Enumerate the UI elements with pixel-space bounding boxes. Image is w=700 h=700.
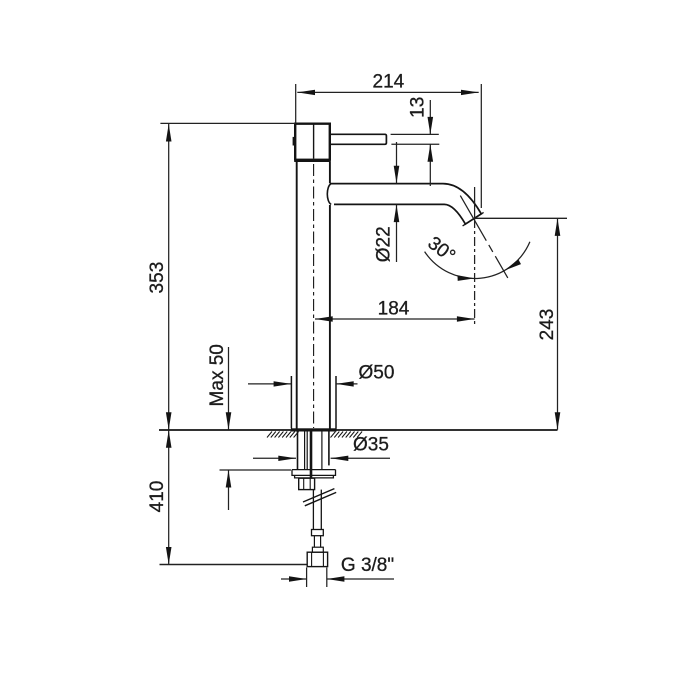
head cap joint line <box>313 124 315 159</box>
angle arc <box>425 242 530 279</box>
washer plate top <box>292 469 336 471</box>
washer lip <box>295 475 334 478</box>
svg-text:243: 243 <box>537 309 558 341</box>
svg-text:184: 184 <box>378 299 410 320</box>
faucet head (cartridge housing) <box>295 124 330 161</box>
hatching left of shank <box>267 432 299 438</box>
body column left edge <box>296 162 298 429</box>
horizontal extension from tip <box>475 217 567 219</box>
centerline of column (dash-dot) <box>313 164 315 428</box>
deck line <box>159 429 558 431</box>
svg-text:Ø50: Ø50 <box>359 363 395 384</box>
hatching right of shank <box>331 432 363 438</box>
spout tube outline <box>330 184 481 225</box>
pipe break slashes <box>303 489 334 502</box>
base shell Ø50 right <box>335 376 337 429</box>
vertical through tip <box>474 187 476 219</box>
head bottom thick band <box>294 159 331 162</box>
base bottom rim <box>291 428 337 431</box>
svg-text:Ø35: Ø35 <box>353 435 389 456</box>
washer body <box>292 470 336 476</box>
spout tip face line extensions <box>463 212 484 226</box>
G3/8 connector nut <box>307 552 327 566</box>
hose end sleeve <box>312 530 324 536</box>
shank tube Ø35 right edge <box>328 432 330 466</box>
base shell Ø50 left <box>290 376 292 429</box>
flexible hose lines <box>312 490 314 530</box>
spout root joint arc <box>327 184 331 205</box>
svg-text:Ø22: Ø22 <box>374 226 395 262</box>
lever handle <box>330 134 386 144</box>
shank tube Ø35 left edge <box>297 432 299 470</box>
svg-text:G 3/8": G 3/8" <box>341 555 394 576</box>
svg-text:Max 50: Max 50 <box>207 344 228 406</box>
svg-text:13: 13 <box>408 97 429 118</box>
svg-text:353: 353 <box>147 262 168 294</box>
body column right edge <box>329 162 331 429</box>
mounting nut <box>299 478 315 489</box>
svg-text:410: 410 <box>147 481 168 513</box>
threaded stud (solid black) <box>310 432 313 479</box>
supply pipe lines <box>304 432 306 470</box>
side nub on head <box>293 137 296 146</box>
svg-text:214: 214 <box>373 72 405 93</box>
outlet direction 30 deg line <box>460 196 508 278</box>
hose end pipe <box>313 536 315 548</box>
hose collar <box>312 547 323 552</box>
